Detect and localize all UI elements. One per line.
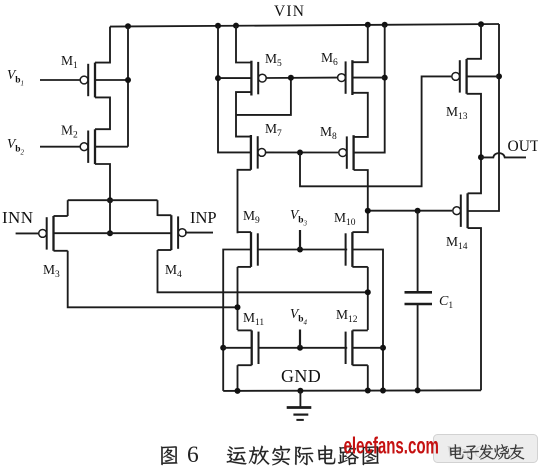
wire M12 bulk: [352, 347, 383, 349]
M11 label: [243, 310, 264, 328]
svg-text:OUT: OUT: [508, 138, 538, 155]
node M6 bulk junction: [382, 75, 388, 81]
node rail-M6bulk junction: [382, 22, 388, 28]
wire M14 source to ground rail: [468, 228, 481, 390]
node M3-drain/M9-source junction: [235, 304, 241, 310]
node rail-M5src junction: [233, 23, 239, 29]
wire M5 bulk: [218, 77, 251, 79]
transistor M10: [346, 232, 353, 267]
wire M11 source to ground rail: [237, 365, 239, 391]
node M5 bulk junction: [215, 75, 221, 81]
node M12src-rail junction: [365, 388, 371, 394]
wire M8 drain down to stage2 node: [354, 170, 368, 211]
node diff bulk junction: [107, 230, 113, 236]
node rail-M1src junction: [125, 23, 131, 29]
node M5/M6 gate junction: [288, 75, 294, 81]
capacitor C1: [405, 292, 433, 304]
Vb1 label: [7, 67, 24, 88]
C1 label: [439, 294, 453, 311]
wire M3 drain route to M9 source: [68, 251, 238, 307]
svg-text:GND: GND: [281, 366, 321, 386]
M4 label: [165, 262, 182, 280]
wire M5 drain to M7 source: [236, 92, 251, 137]
wire M1 bulk: [95, 79, 128, 81]
wire M7-M8 gate line: [265, 151, 338, 153]
elecfans.com logo: [344, 433, 439, 459]
wire rail to M1/M2 bulks: [127, 26, 129, 146]
watermark 电子发烧友: [450, 444, 525, 459]
wire M3 top stub: [54, 215, 68, 217]
node Vb3 gate junction: [297, 247, 303, 253]
wire Vb3 stub: [299, 230, 301, 250]
node M10bulk-rail junction: [380, 388, 386, 394]
wire M11 bulk: [223, 347, 252, 349]
VIN label: [274, 3, 305, 20]
wire Vb1 gate lead: [40, 79, 80, 81]
wire INP gate lead: [185, 232, 213, 234]
wire M1 drain to M2 source: [95, 97, 110, 129]
wire M5 source to rail: [236, 26, 251, 63]
wire M12 bottom stub: [352, 364, 367, 366]
caption 图6 运放实际电路图: [161, 442, 379, 467]
svg-text:6: 6: [187, 442, 199, 467]
wire M9 bottom stub: [238, 266, 252, 268]
M8 label: [320, 124, 337, 142]
ground symbol: [287, 391, 312, 420]
wire M2 bulk: [95, 146, 128, 148]
M14 label: [446, 234, 468, 252]
node rail-M6src junction: [365, 22, 371, 28]
wire M13 bulk: [467, 75, 499, 77]
wire M6 bulk: [352, 77, 384, 79]
node tail junction: [107, 197, 113, 203]
transistor M11: [252, 330, 259, 365]
wire M6 source to rail: [352, 25, 367, 62]
wire M2 drain to tail node: [95, 164, 110, 200]
wire M13 source to rail: [467, 24, 481, 59]
node C1-rail junction: [415, 387, 421, 393]
wire M6 drain to M8 source: [352, 93, 367, 137]
wire tail to diff-pair bulks: [109, 200, 111, 233]
node M7/M8 gate junction: [297, 150, 303, 156]
wire C1 bottom lead: [417, 304, 419, 390]
wire rail right drop to M13/M14 bulks: [468, 24, 499, 211]
node M8/M10 drain junction: [365, 208, 371, 214]
wire M5 diode tie: [236, 78, 291, 115]
node rail-M13src junction: [478, 21, 484, 27]
wire stage2 gate line: [368, 210, 452, 212]
node M4-drain/M10-source junction: [365, 289, 371, 295]
wire M7/M8 gate to M13 gate: [300, 76, 451, 186]
wire VIN top supply rail: [110, 24, 499, 27]
wire INN gate lead: [16, 232, 39, 234]
node M13 bulk junction: [496, 73, 502, 79]
M9 label: [243, 208, 260, 226]
wire tail rail: [68, 199, 158, 201]
wire M12 top stub: [352, 329, 367, 331]
M7 label: [265, 121, 282, 139]
transistor M7: [251, 135, 266, 170]
node M11src-rail junction: [235, 388, 241, 394]
wire M10 drain up to stage2 node: [367, 211, 369, 234]
M1 label: [61, 53, 78, 71]
svg-text:INP: INP: [190, 208, 217, 227]
wire rail to M6/M8 bulks: [354, 25, 385, 153]
GND label: [281, 366, 321, 386]
M10 label: [334, 210, 356, 228]
OUT label: [508, 138, 538, 155]
wire M10 bottom stub: [352, 266, 367, 268]
node Vb4 gate junction: [297, 345, 303, 351]
M5 label: [265, 51, 282, 69]
transistor M2: [80, 129, 95, 164]
M12 label: [336, 307, 358, 325]
Vb3 label: [290, 207, 308, 228]
node M1 bulk junction: [125, 77, 131, 83]
wire Vb2 gate lead: [40, 146, 80, 148]
node M12 bulk junction: [380, 345, 386, 351]
wire M3/M4 bulk line: [54, 232, 172, 234]
node GND-stem junction: [297, 388, 303, 394]
wire M4 top stub: [158, 214, 172, 216]
wire M4 bottom stub: [158, 249, 172, 251]
transistor M1: [80, 63, 95, 98]
wire C1 top lead: [417, 211, 419, 293]
wire M7 drain to M9 drain: [238, 170, 251, 233]
wire OUT lead: [481, 153, 526, 157]
svg-text:elecfans.com: elecfans.com: [344, 433, 439, 459]
Vb2 label: [7, 136, 25, 157]
wire M4 drain route to M10 source: [158, 250, 368, 292]
transistor M3: [39, 216, 54, 251]
wire M12 source to ground rail: [367, 365, 369, 390]
wire M9-M10 gate line: [258, 249, 347, 251]
INP label: [190, 208, 217, 227]
node rail-M5bulk junction: [215, 23, 221, 29]
wire M9 bulk to ground rail: [223, 250, 251, 391]
transistor M4: [171, 215, 186, 250]
node OUT junction: [478, 154, 484, 160]
wire M11-M12 gate line: [259, 347, 348, 349]
wire M13 drain to M14 drain: [467, 94, 481, 194]
wire M3 bottom stub: [54, 250, 68, 252]
transistor M13: [452, 59, 467, 94]
wire M4 source up: [157, 200, 159, 216]
M6 label: [321, 50, 338, 68]
wire M5-M6 gate line: [266, 77, 339, 79]
node C1 tap junction: [415, 208, 421, 214]
transistor M6: [338, 60, 353, 95]
transistor M8: [339, 135, 354, 170]
transistor M5: [251, 61, 266, 96]
Vb4 label: [290, 306, 308, 327]
wire M10 bulk to ground rail: [352, 250, 383, 391]
wire rail to M5/M7 bulks: [218, 26, 251, 153]
M3 label: [43, 262, 60, 280]
wire M11 bottom stub: [238, 364, 252, 366]
wire M11 top stub: [238, 329, 252, 331]
wire M3 source up: [67, 200, 69, 216]
INN label: [2, 208, 33, 227]
transistor M12: [346, 330, 353, 365]
wire M1 source to rail: [95, 27, 110, 63]
M13 label: [446, 104, 468, 122]
wire Vb4 stub: [299, 330, 301, 348]
watermark panel: [434, 435, 538, 463]
svg-text:INN: INN: [2, 208, 33, 227]
transistor M14: [453, 193, 468, 228]
svg-text:VIN: VIN: [274, 3, 305, 20]
transistor M9: [251, 232, 258, 267]
wire M9 source down to M11 drain: [237, 267, 239, 330]
wire M10 top stub: [352, 231, 367, 233]
M2 label: [61, 123, 78, 141]
wire M10 source down to M12 drain: [367, 267, 369, 330]
wire M9 top stub: [238, 231, 252, 233]
node M11 bulk junction: [220, 345, 226, 351]
wire GND bottom rail: [223, 389, 481, 392]
